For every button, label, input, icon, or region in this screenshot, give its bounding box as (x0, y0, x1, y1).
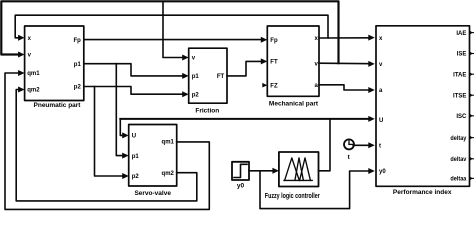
wire v: Mech v out to Perf v in (319, 62, 371, 65)
svg-text:ITSE: ITSE (453, 93, 466, 99)
arrow into Perf y0 (368, 168, 375, 174)
y0 step icon (234, 164, 247, 177)
block Performance index (376, 26, 470, 187)
wire y0 branch to Perf y0 (260, 171, 371, 209)
svg-text:p2: p2 (74, 85, 82, 91)
block Mechanical part (267, 26, 319, 96)
svg-text:deltaa: deltaa (450, 177, 467, 183)
arrow into Servo p2 (122, 173, 129, 179)
wire x-feedback: from x wire up at x=328, along y=15.2, down to Pneumatic x in (15, 15, 328, 38)
svg-text:Servo-valve: Servo-valve (134, 190, 171, 197)
wire t: clock to Perf t (353, 144, 371, 146)
arrow into Mech Fp (261, 37, 268, 43)
wire Fp: Pneumatic Fp out to Mech Fp in (84, 39, 262, 41)
Perf output port arrows (470, 30, 473, 34)
svg-text:Performance index: Performance index (393, 189, 452, 196)
clock block (344, 139, 354, 149)
svg-text:p2: p2 (132, 174, 140, 180)
svg-text:p1: p1 (132, 154, 140, 160)
wire fuzzy out up to U line (319, 119, 331, 171)
wire x: Mech x out to Perf x in (319, 37, 371, 39)
arrow into Friction v (182, 55, 189, 61)
wire a: Mech a out to Perf a in (319, 85, 371, 90)
arrow into Pneumatic qm1 (18, 70, 25, 76)
wire p1 to Friction (84, 64, 184, 76)
svg-text:ISC: ISC (456, 114, 467, 120)
svg-text:qm1: qm1 (27, 71, 40, 77)
block Pneumatic part (25, 26, 84, 101)
svg-text:p2: p2 (192, 92, 200, 98)
svg-text:deltav: deltav (450, 157, 467, 163)
Perf output port stubs (470, 33, 474, 179)
arrowheads (18, 30, 473, 180)
wire qm1 return loop (5, 73, 209, 209)
svg-text:t: t (348, 154, 351, 161)
wire p2 to Friction (84, 87, 184, 95)
arrow into Friction p2 (182, 91, 189, 97)
arrow into Pneumatic qm2 (18, 87, 25, 93)
arrow into Friction p1 (182, 73, 189, 79)
arrow into Pneumatic x (18, 35, 25, 41)
svg-text:qm2: qm2 (162, 171, 175, 177)
arrow into Servo p1 (122, 153, 129, 159)
svg-text:IAE: IAE (456, 31, 466, 37)
svg-text:FT: FT (217, 74, 225, 80)
arrow into Pneumatic v (18, 52, 25, 58)
svg-text:Fuzzy logic controller: Fuzzy logic controller (265, 193, 320, 200)
fuzzy membership triangles icon (284, 158, 312, 181)
arrow into Perf a (368, 87, 375, 93)
svg-text:Pneumatic part: Pneumatic part (34, 102, 82, 109)
wire v-feedback: Mech v out, up at x=338.5, along top, down left edge to Pneumatic v in (1, 1, 338, 63)
arrow into Fuzzy in (272, 168, 279, 174)
wire U main line (120, 118, 371, 120)
wire FT: Friction FT out to Mech FT in (227, 61, 262, 76)
wire qm2 return loop (16, 90, 197, 201)
block Friction (189, 48, 227, 103)
svg-text:Friction: Friction (195, 107, 219, 114)
svg-text:ISE: ISE (457, 52, 467, 58)
svg-text:U: U (379, 118, 383, 124)
wire v branch to Friction v (163, 1, 184, 57)
wire y0 to fuzzy in (249, 170, 274, 172)
wire U down to Servo U in (120, 119, 123, 135)
svg-text:p1: p1 (74, 62, 82, 68)
svg-text:qm2: qm2 (27, 88, 40, 94)
block y0 (step source) (232, 162, 249, 180)
svg-text:t: t (379, 144, 381, 150)
block Servo-valve (129, 125, 177, 187)
svg-text:ITAE: ITAE (453, 72, 466, 78)
arrow into Perf U (368, 116, 375, 122)
arrow into Mech FZ (unconnected port) (262, 83, 267, 88)
block Fuzzy logic controller (279, 152, 319, 187)
arrow into Mech FT (261, 58, 268, 64)
arrow into Perf v (368, 61, 375, 67)
svg-text:Fp: Fp (73, 38, 81, 44)
svg-text:deltay: deltay (450, 136, 467, 142)
svg-text:Fp: Fp (270, 38, 278, 44)
block labels (34, 100, 452, 200)
svg-text:U: U (132, 134, 136, 140)
arrow into Perf t (368, 142, 375, 148)
svg-text:FT: FT (270, 60, 278, 66)
svg-text:FZ: FZ (270, 83, 278, 89)
wire p1 branch to Servo p1 (116, 64, 123, 156)
svg-text:p1: p1 (192, 74, 200, 80)
svg-text:y0: y0 (237, 182, 245, 189)
svg-text:qm1: qm1 (162, 140, 175, 146)
port labels (27, 31, 467, 183)
svg-text:Mechanical part: Mechanical part (269, 100, 319, 107)
svg-text:y0: y0 (379, 169, 386, 175)
arrow into Servo U (122, 132, 129, 138)
wire p2 branch to Servo p2 (95, 87, 124, 177)
arrow into Perf x (368, 35, 375, 41)
